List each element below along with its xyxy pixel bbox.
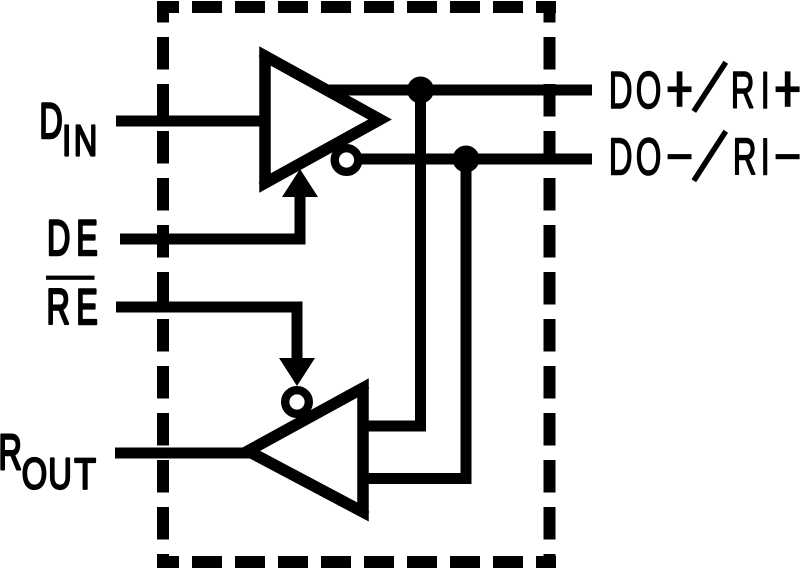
svg-text:R: R xyxy=(731,63,755,120)
svg-text:E: E xyxy=(76,279,98,335)
svg-text:U: U xyxy=(48,450,72,499)
svg-text:O: O xyxy=(636,129,662,186)
svg-text:O: O xyxy=(636,63,662,120)
svg-text:D: D xyxy=(609,63,633,120)
svg-text:I: I xyxy=(761,129,770,186)
svg-text:T: T xyxy=(74,450,96,498)
svg-text:I: I xyxy=(761,63,770,120)
svg-text:D: D xyxy=(39,93,62,149)
svg-text:D: D xyxy=(609,129,633,186)
svg-text:R: R xyxy=(0,424,22,480)
svg-text:R: R xyxy=(733,129,757,186)
svg-text:D: D xyxy=(47,210,70,266)
svg-text:I: I xyxy=(62,117,71,166)
svg-text:E: E xyxy=(76,210,98,266)
svg-text:O: O xyxy=(22,450,47,499)
svg-text:N: N xyxy=(74,117,98,166)
svg-text:R: R xyxy=(47,279,70,335)
